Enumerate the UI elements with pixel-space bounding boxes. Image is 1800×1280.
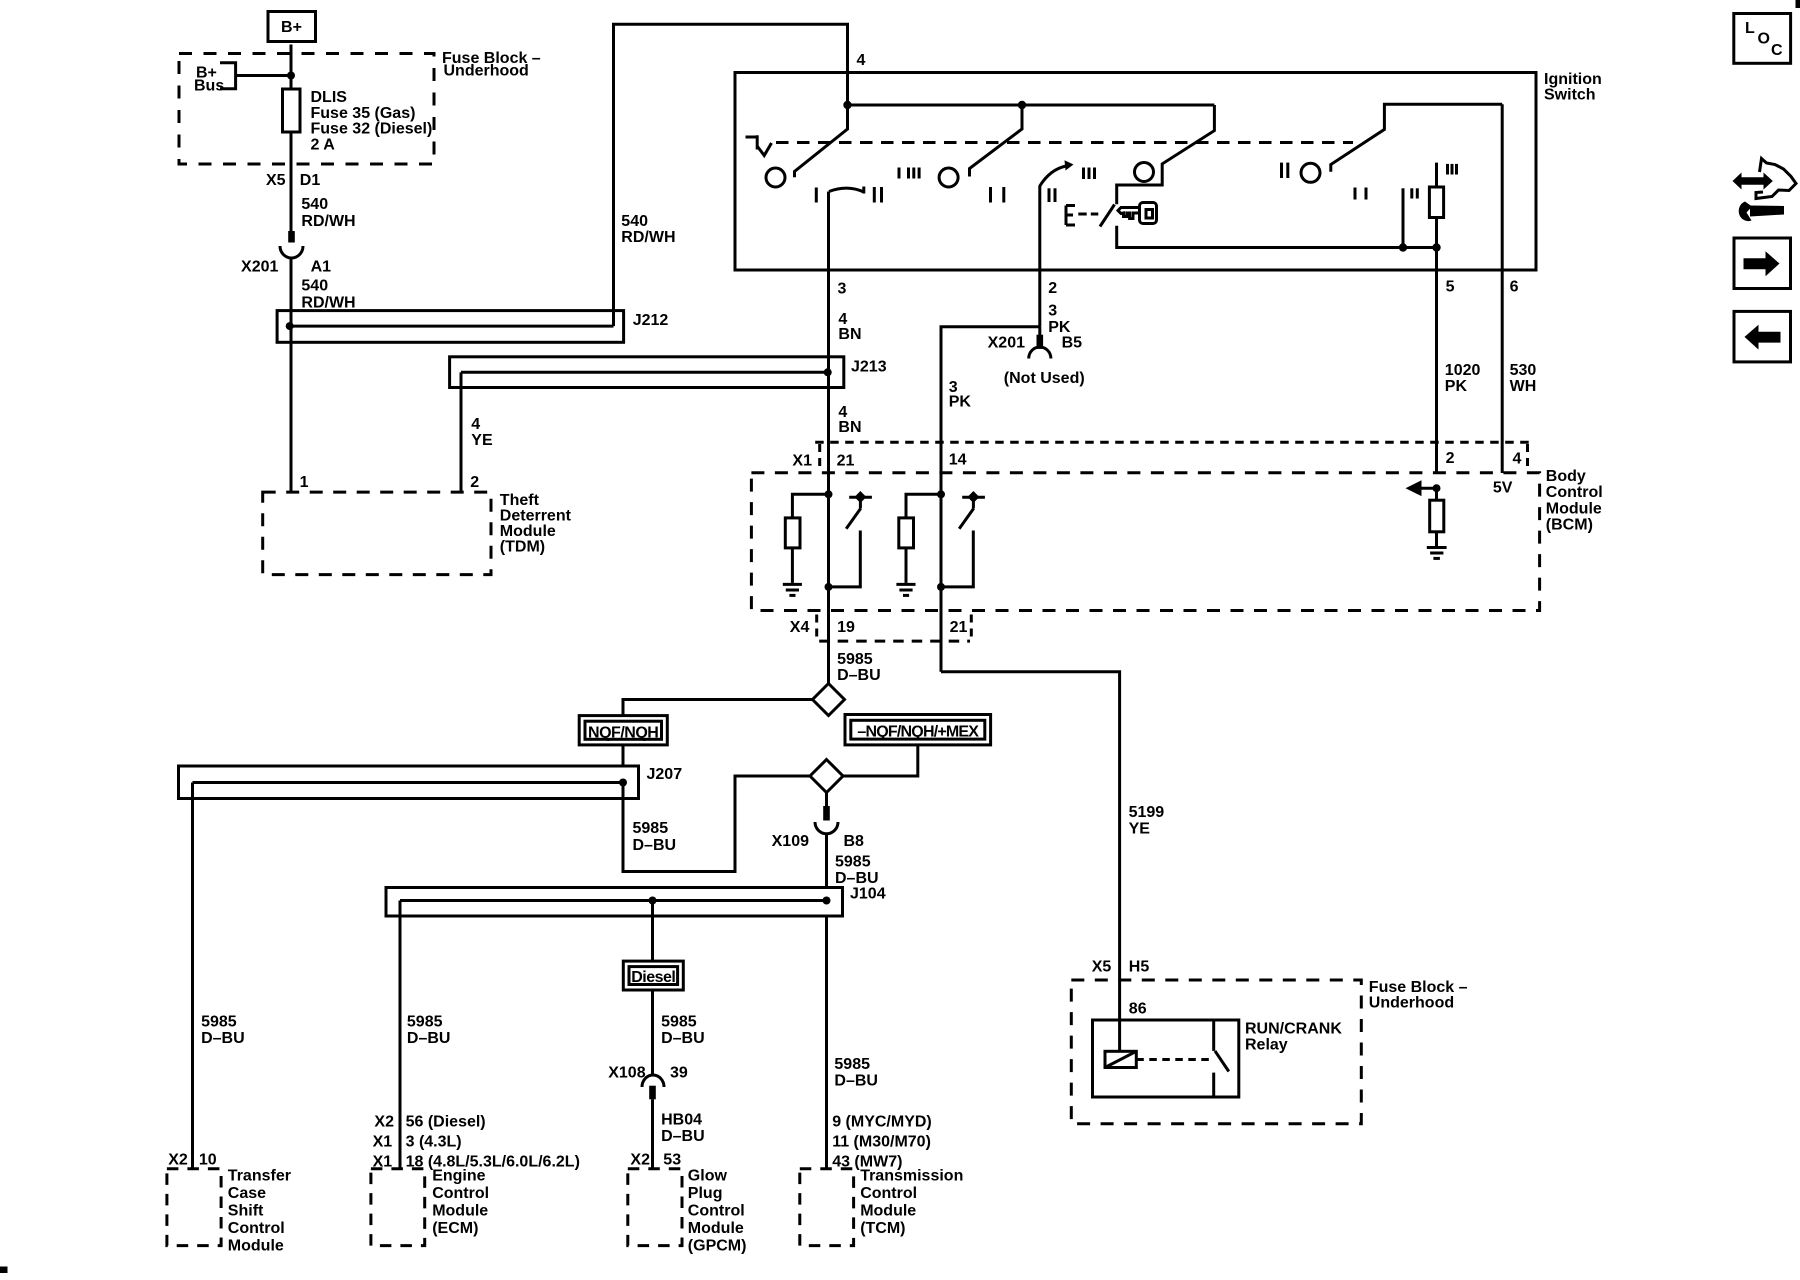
svg-text:86: 86	[1129, 1001, 1147, 1018]
svg-text:NQF/NQH: NQF/NQH	[588, 725, 658, 742]
edge mark bottom left	[0, 1267, 8, 1274]
svg-text:540: 540	[301, 278, 328, 295]
svg-text:Control: Control	[1546, 484, 1603, 501]
svg-text:21: 21	[950, 619, 968, 636]
splice diamond S2	[810, 760, 843, 793]
pole C ticks III	[1084, 168, 1095, 180]
ignition switch box S1	[735, 71, 1602, 270]
pole C ticks I I right	[1355, 188, 1366, 200]
fuse DLIS Fuse 35 (Gas) Fuse 32 (Diesel) 2A	[283, 89, 433, 153]
icon arrow right box	[1734, 238, 1791, 289]
svg-text:Module: Module	[860, 1203, 916, 1220]
svg-text:2: 2	[1446, 450, 1455, 467]
svg-text:2: 2	[1048, 280, 1057, 297]
BCM monitor switch 2	[941, 491, 985, 587]
svg-text:5985: 5985	[661, 1014, 697, 1031]
svg-text:540: 540	[301, 196, 328, 213]
svg-text:Fuse Block –: Fuse Block –	[1369, 979, 1468, 996]
svg-text:Control: Control	[860, 1185, 917, 1202]
svg-text:J212: J212	[633, 312, 669, 329]
node B+ Bus	[194, 63, 295, 95]
splice diamond S1	[813, 684, 845, 716]
svg-text:Diesel: Diesel	[631, 969, 675, 986]
connector X4 dashed strip	[790, 615, 972, 642]
pole D ticks II left	[1282, 163, 1288, 178]
application box NQF/NQH	[579, 716, 667, 745]
svg-text:RUN/CRANK: RUN/CRANK	[1245, 1021, 1342, 1038]
svg-text:D–BU: D–BU	[633, 837, 677, 854]
switch pole A blade	[795, 105, 848, 177]
svg-text:5V: 5V	[1493, 480, 1513, 497]
svg-text:10: 10	[199, 1152, 217, 1169]
svg-text:PK: PK	[949, 394, 972, 411]
svg-text:3: 3	[1048, 303, 1057, 320]
svg-text:BN: BN	[838, 326, 861, 343]
svg-text:–NQF/NQH/+MEX: –NQF/NQH/+MEX	[857, 724, 979, 741]
svg-text:4: 4	[471, 416, 480, 433]
wire J104 to Diesel box	[651, 901, 654, 962]
svg-text:5985: 5985	[633, 820, 669, 837]
engine control module ECM dashed box	[371, 1168, 489, 1246]
svg-text:X2: X2	[168, 1152, 188, 1169]
wire 540 RD/WH X201 to TDM pin 1	[291, 257, 356, 492]
svg-text:Module: Module	[1546, 500, 1602, 517]
wire 3 PK branch to BCM pin 14	[941, 327, 1040, 473]
svg-text:4: 4	[1513, 451, 1522, 468]
ground internal 1	[783, 584, 802, 595]
svg-text:J104: J104	[850, 886, 886, 903]
svg-text:X108: X108	[608, 1065, 645, 1082]
svg-text:D–BU: D–BU	[407, 1030, 451, 1047]
svg-text:PK: PK	[1048, 319, 1071, 336]
svg-text:X1: X1	[792, 453, 812, 470]
wire 4 YE J213 to TDM pin 2	[461, 388, 493, 493]
lock position symbol	[746, 135, 772, 155]
svg-text:Underhood: Underhood	[1369, 995, 1454, 1012]
svg-text:Body: Body	[1546, 468, 1586, 485]
svg-text:5985: 5985	[834, 1056, 870, 1073]
connector X201 B5 not used	[988, 327, 1085, 387]
svg-text:Control: Control	[688, 1203, 745, 1220]
svg-text:11 (M30/M70): 11 (M30/M70)	[832, 1134, 931, 1151]
wire 530 WH pin 6 to BCM pin 4	[1502, 104, 1536, 473]
svg-text:530: 530	[1510, 362, 1537, 379]
relay mechanical dashed link	[1136, 1058, 1212, 1061]
svg-text:C: C	[1771, 42, 1783, 59]
bus wire pin 4	[843, 101, 1214, 109]
switch pole C key blade	[1117, 105, 1215, 204]
connector X108 39	[608, 1065, 688, 1100]
pole A contact arc	[829, 187, 864, 194]
fuse block underhood dashed box	[179, 54, 434, 165]
svg-text:(BCM): (BCM)	[1546, 517, 1593, 534]
svg-text:D–BU: D–BU	[661, 1128, 705, 1145]
svg-text:X109: X109	[772, 833, 809, 850]
wire 5199 YE BCM 21 to relay	[941, 611, 1164, 1021]
wire splice to NQF/NQH	[623, 700, 813, 716]
svg-text:1: 1	[300, 474, 309, 491]
svg-text:Transfer: Transfer	[228, 1168, 291, 1185]
theft deterrent module TDM dashed box	[263, 492, 572, 575]
svg-text:Underhood: Underhood	[444, 63, 529, 80]
svg-text:J207: J207	[647, 766, 683, 783]
switch pole D blade	[1331, 104, 1502, 172]
svg-text:Glow: Glow	[688, 1168, 728, 1185]
wire key switch to contact	[1117, 226, 1441, 252]
svg-text:19: 19	[837, 619, 855, 636]
pole C ticks II	[1049, 188, 1055, 202]
node 5V reference	[1493, 480, 1513, 497]
svg-text:(Not Used): (Not Used)	[1004, 370, 1085, 387]
svg-text:Control: Control	[228, 1220, 285, 1237]
svg-text:B8: B8	[844, 833, 865, 850]
svg-text:1020: 1020	[1445, 362, 1481, 379]
svg-text:D1: D1	[300, 172, 321, 189]
BCM monitor switch 1	[829, 491, 872, 587]
mechanical link dashed line	[776, 141, 1353, 144]
application box Diesel	[623, 961, 683, 990]
transmission control module TCM dashed box	[800, 1168, 964, 1246]
BCM pulldown resistor 1	[785, 494, 828, 583]
terminal circle B	[939, 168, 958, 187]
svg-text:Fuse 32 (Diesel): Fuse 32 (Diesel)	[311, 121, 433, 138]
svg-text:(TCM): (TCM)	[860, 1220, 905, 1237]
svg-text:X201: X201	[988, 335, 1025, 352]
svg-text:540: 540	[621, 213, 648, 230]
splice pack J104	[386, 886, 886, 917]
pole C wiper arc with arrow	[1040, 160, 1074, 186]
svg-text:Module: Module	[688, 1220, 744, 1237]
wire 5985 D-BU Diesel to X108	[653, 990, 705, 1074]
BCM input wire pin 21	[825, 473, 833, 611]
svg-text:X201: X201	[241, 259, 278, 276]
svg-text:B+: B+	[281, 19, 302, 36]
resistor in ignition switch	[1429, 163, 1443, 248]
svg-text:Plug: Plug	[688, 1185, 723, 1202]
connector X109 B8	[772, 793, 864, 851]
relay coil	[1105, 1020, 1136, 1068]
svg-text:YE: YE	[1129, 821, 1151, 838]
body control module BCM dashed box	[751, 468, 1602, 611]
BCM signal direction arrow	[1406, 480, 1441, 496]
svg-text:D–BU: D–BU	[835, 870, 879, 887]
svg-text:5985: 5985	[407, 1014, 443, 1031]
svg-text:WH: WH	[1510, 378, 1537, 395]
svg-text:A1: A1	[311, 259, 332, 276]
svg-text:X4: X4	[790, 619, 810, 636]
svg-text:O: O	[1758, 31, 1770, 48]
svg-text:Deterrent: Deterrent	[500, 508, 572, 525]
terminal circle C	[1135, 163, 1154, 182]
wire 5985 D-BU J104 to ECM	[373, 916, 580, 1171]
svg-text:5985: 5985	[201, 1014, 237, 1031]
relay RUN/CRANK box	[1093, 1020, 1343, 1097]
svg-text:6: 6	[1510, 279, 1519, 296]
svg-text:3: 3	[838, 281, 847, 298]
svg-text:5199: 5199	[1129, 804, 1165, 821]
svg-text:Transmission: Transmission	[860, 1168, 963, 1185]
svg-text:(GPCM): (GPCM)	[688, 1237, 747, 1254]
connector X1 dashed strip	[792, 442, 1532, 469]
wire 5985 D-BU J207 route to splice 2	[623, 776, 810, 872]
wire 5985 D-BU J207 to transfer case module	[168, 799, 244, 1169]
svg-text:Switch: Switch	[1544, 87, 1596, 104]
relay switch contacts	[1214, 1020, 1229, 1097]
svg-text:D–BU: D–BU	[837, 667, 881, 684]
pole B position ticks I III	[899, 168, 919, 179]
svg-text:Relay: Relay	[1245, 1037, 1288, 1054]
svg-text:D–BU: D–BU	[201, 1030, 245, 1047]
svg-text:X1: X1	[373, 1134, 393, 1151]
svg-text:X2: X2	[630, 1152, 650, 1169]
corner mark top right	[1796, 0, 1800, 8]
fuse block underhood dashed box 2	[1071, 979, 1467, 1124]
svg-text:H5: H5	[1129, 959, 1150, 976]
svg-text:Ignition: Ignition	[1544, 71, 1602, 88]
BCM resistor to ground	[1430, 488, 1444, 546]
key symbol	[1118, 203, 1157, 224]
svg-text:RD/WH: RD/WH	[301, 213, 355, 230]
svg-text:2: 2	[470, 474, 479, 491]
switch pole B blade	[970, 105, 1023, 177]
svg-text:Bus: Bus	[194, 78, 224, 95]
wire 3 PK pin 2	[1040, 186, 1071, 337]
terminal circle D	[1301, 163, 1320, 182]
terminal circle A	[766, 168, 785, 187]
svg-text:4: 4	[857, 52, 866, 69]
wire NQF/NQH to J207	[622, 745, 625, 766]
wire 540 RD/WH J212 to ignition pin 4	[614, 24, 866, 310]
svg-text:5: 5	[1446, 279, 1455, 296]
wire HB04 D-BU X108 to GPCM	[630, 1099, 704, 1168]
wire B+ to fuse	[290, 45, 293, 90]
wire 5985 D-BU X109 to J104	[827, 834, 879, 888]
key switch E position	[1066, 205, 1115, 227]
pole D ticks III	[1448, 164, 1457, 175]
wire 1020 PK pin 5 to BCM pin 2	[1437, 248, 1481, 474]
svg-text:39: 39	[670, 1065, 688, 1082]
wire 5985 D-BU BCM 19 to splice	[829, 611, 881, 685]
svg-text:Module: Module	[500, 523, 556, 540]
wire 5985 D-BU J104 to TCM	[827, 916, 932, 1171]
svg-text:Control: Control	[432, 1185, 489, 1202]
pole D contact stub	[1402, 188, 1405, 247]
svg-text:J213: J213	[851, 359, 887, 376]
splice pack J207	[179, 766, 683, 799]
pole A position ticks I II	[816, 187, 881, 203]
svg-text:Module: Module	[432, 1203, 488, 1220]
splice pack J213	[450, 357, 887, 388]
svg-text:Engine: Engine	[432, 1168, 485, 1185]
B+ power symbol	[268, 12, 316, 42]
application box -NQF/NQH/+MEX	[845, 715, 991, 745]
svg-text:BN: BN	[838, 419, 861, 436]
svg-text:HB04: HB04	[661, 1112, 702, 1129]
svg-text:Module: Module	[228, 1237, 284, 1254]
svg-text:21: 21	[837, 453, 855, 470]
wire splice 2 to -NQF box	[843, 745, 918, 776]
svg-text:Theft: Theft	[500, 492, 540, 509]
svg-text:2 A: 2 A	[311, 136, 336, 153]
svg-text:5985: 5985	[837, 651, 873, 668]
pole D ticks II	[1412, 188, 1418, 198]
svg-text:Shift: Shift	[228, 1203, 264, 1220]
svg-text:B5: B5	[1062, 335, 1083, 352]
svg-text:X5: X5	[1092, 959, 1112, 976]
svg-text:DLIS: DLIS	[311, 89, 348, 106]
icon diagnostic pointer	[1733, 159, 1797, 222]
svg-text:Fuse 35 (Gas): Fuse 35 (Gas)	[311, 105, 416, 122]
svg-text:5985: 5985	[835, 854, 871, 871]
ground BCM right	[1427, 548, 1447, 559]
svg-text:3 (4.3L): 3 (4.3L)	[406, 1134, 462, 1151]
svg-text:PK: PK	[1445, 378, 1468, 395]
svg-text:RD/WH: RD/WH	[301, 295, 355, 312]
svg-text:56 (Diesel): 56 (Diesel)	[406, 1114, 486, 1131]
transfer case shift control module dashed box	[167, 1168, 291, 1255]
svg-text:YE: YE	[471, 432, 493, 449]
ground internal 2	[896, 584, 915, 595]
splice pack J212	[277, 311, 668, 343]
label Fuse Block Underhood	[442, 50, 541, 80]
svg-text:X5: X5	[266, 172, 286, 189]
svg-text:X2: X2	[374, 1114, 394, 1131]
svg-text:D–BU: D–BU	[661, 1030, 705, 1047]
svg-text:53: 53	[663, 1152, 681, 1169]
svg-text:Case: Case	[228, 1185, 266, 1202]
svg-text:9 (MYC/MYD): 9 (MYC/MYD)	[832, 1114, 932, 1131]
svg-text:14: 14	[949, 452, 967, 469]
pole B lower ticks I I	[991, 187, 1004, 203]
svg-text:L: L	[1745, 20, 1755, 37]
svg-text:D–BU: D–BU	[834, 1073, 878, 1090]
wire 4 BN pin 3 to BCM pin 21	[829, 192, 862, 474]
connector X201 A1	[241, 231, 331, 276]
svg-text:(ECM): (ECM)	[432, 1220, 478, 1237]
glow plug control module GPCM dashed box	[628, 1168, 747, 1255]
svg-text:RD/WH: RD/WH	[621, 229, 675, 246]
icon LOC box	[1734, 14, 1791, 64]
BCM pulldown resistor 2	[899, 494, 941, 583]
BCM input wire pin 14	[937, 473, 945, 611]
wire 540 RD/WH fuse to X201	[266, 132, 356, 231]
svg-text:(TDM): (TDM)	[500, 539, 545, 556]
icon arrow left box	[1734, 311, 1791, 362]
